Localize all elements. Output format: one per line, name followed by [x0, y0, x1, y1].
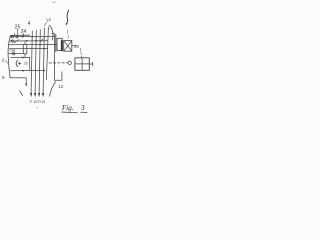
right vertical in enclosure	[29, 57, 31, 70]
row wire y36.7	[10, 35, 54, 37]
relay contact arc	[16, 60, 18, 66]
svg-text:14: 14	[45, 17, 52, 23]
resistor bottom stub	[24, 54, 26, 58]
leader squiggle 5 to transducer	[66, 10, 68, 24]
contact circle row1 b	[16, 36, 18, 38]
junction dot line2 row2	[35, 40, 37, 42]
leader for 2	[5, 60, 8, 63]
3 underline	[80, 111, 87, 113]
hop arc near line5 top	[49, 25, 53, 40]
contact circle row y53	[13, 53, 15, 55]
junction dot y70	[22, 70, 24, 72]
row wire y44.6	[9, 43, 57, 45]
transducer body rect	[57, 38, 62, 50]
row wire y53.5	[9, 53, 23, 55]
leader for 24	[23, 33, 25, 36]
small dot below labels	[37, 107, 38, 108]
svg-text:10: 10	[33, 100, 37, 104]
svg-text:Fig.: Fig.	[61, 104, 74, 112]
bus line 1 arrowhead	[30, 93, 32, 97]
junction dot y57	[22, 57, 24, 59]
crystal X diagonal 1	[64, 41, 72, 52]
svg-text:12: 12	[58, 84, 64, 89]
junction dot row1	[22, 36, 24, 38]
junction dot line4 row4	[43, 48, 45, 50]
row wire y40.8	[10, 40, 48, 42]
bus line 3 arrowhead	[38, 93, 40, 97]
tick below 14	[44, 23, 46, 26]
top corner of feed	[52, 33, 54, 35]
grid box vertical divider	[81, 58, 83, 71]
left enclosure top edge	[10, 35, 29, 36]
svg-text:3: 3	[80, 103, 85, 112]
svg-text:2: 2	[2, 58, 5, 63]
U wire bottom middle	[54, 72, 62, 81]
junction dot line1 row1	[31, 36, 33, 38]
row wire y57.5	[11, 56, 30, 58]
crystal X diagonal 2	[64, 41, 72, 52]
svg-text:5a: 5a	[10, 48, 15, 53]
grid box stub	[89, 63, 92, 65]
bus line 2	[35, 30, 36, 93]
arrowhead on corner	[25, 84, 27, 87]
diagonal tick in grid	[41, 39, 44, 42]
bus line 3	[39, 30, 40, 93]
small diagonal tick bottom-left	[20, 91, 23, 96]
svg-text:29: 29	[74, 44, 79, 49]
svg-text:4: 4	[28, 21, 31, 27]
resistor rect	[23, 45, 27, 54]
crystal box with X	[64, 41, 72, 52]
grid box outer	[75, 58, 89, 71]
junction dot on bus line4	[43, 70, 45, 72]
bus line 5	[46, 27, 48, 80]
enclosure bottom wire	[10, 77, 26, 79]
bus line 4	[43, 28, 44, 93]
top small dash	[53, 1, 56, 3]
transducer left plate	[55, 35, 57, 52]
leader for 25	[17, 29, 19, 35]
transducer dark bar	[61, 40, 63, 51]
control circle	[68, 61, 71, 64]
svg-text:26: 26	[24, 61, 28, 65]
junction dot row2	[26, 40, 28, 42]
plus mark h	[18, 62, 21, 64]
Fig underline	[62, 111, 78, 114]
plus tick above row1	[14, 34, 16, 36]
row wire y48.5	[9, 48, 47, 50]
bus line 2 arrowhead	[34, 93, 36, 97]
output wire right	[72, 45, 77, 47]
left enclosure left edge	[8, 36, 10, 78]
vertical feed line to transducer	[53, 34, 55, 81]
faint dashes below squiggle	[66, 30, 68, 34]
leader curve from 12	[50, 82, 56, 96]
svg-text:13: 13	[41, 100, 45, 104]
contact circle row1 a	[11, 36, 13, 38]
grid box horizontal divider	[75, 63, 89, 65]
svg-text:8: 8	[2, 75, 5, 80]
svg-text:9: 9	[30, 99, 32, 103]
contact arm row2	[14, 40, 18, 43]
plus mark v	[19, 62, 21, 65]
bottom wire corner down	[25, 78, 27, 84]
grid box stub tick	[92, 62, 94, 66]
row wire y70.5	[11, 69, 44, 71]
junction dot line3 row3	[39, 44, 41, 46]
bus line 4 arrowhead	[42, 93, 44, 97]
bus line 1	[31, 31, 32, 93]
dashed control line	[49, 62, 67, 64]
contact circle row2	[11, 40, 13, 42]
resistor top stub	[24, 41, 26, 45]
dotted drop line	[80, 49, 83, 58]
